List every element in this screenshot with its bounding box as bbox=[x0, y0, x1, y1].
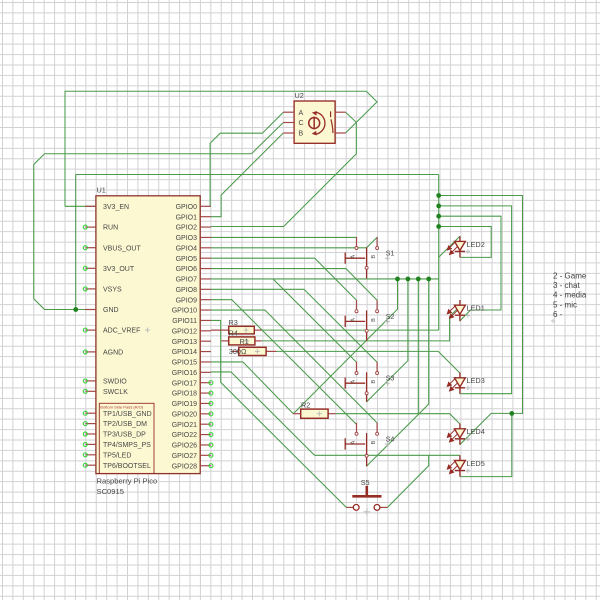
svg-text:5 - mic: 5 - mic bbox=[553, 300, 577, 309]
wire GPIO16 to anode rail bbox=[211, 372, 315, 455]
wire GPIO7 diag to S3.A bbox=[273, 279, 357, 362]
U1 pin GPIO18 bbox=[172, 391, 213, 398]
U1 pin GPIO21 bbox=[172, 422, 213, 429]
wire GPIO5 to S2.A bbox=[211, 258, 357, 300]
wire GPIO11 to S5 left bbox=[211, 320, 346, 507]
LED LED3 bbox=[447, 373, 470, 394]
note origin cross bbox=[551, 319, 555, 323]
U2 pin B (left) bbox=[283, 131, 303, 138]
U1 pin SWCLK bbox=[83, 389, 128, 396]
svg-text:B: B bbox=[371, 255, 377, 259]
pushbutton S5 left contact bbox=[346, 505, 359, 511]
switch S3 movable contact bbox=[365, 372, 368, 402]
svg-text:A: A bbox=[350, 318, 356, 322]
U1 pin TP2/USB_DM bbox=[83, 421, 147, 428]
svg-text:GPIO5: GPIO5 bbox=[176, 256, 198, 263]
pushbutton S5 cap bar bbox=[352, 495, 381, 498]
wire GND left loop bbox=[34, 154, 252, 310]
U1 pin TP6/BOOTSEL bbox=[83, 463, 151, 470]
svg-text:TP4/SMPS_PS: TP4/SMPS_PS bbox=[103, 442, 151, 449]
U1 pin GPIO6 bbox=[176, 266, 211, 273]
wire S5 right riser bbox=[388, 455, 429, 507]
svg-text:R4: R4 bbox=[229, 329, 238, 338]
svg-text:GPIO22: GPIO22 bbox=[172, 432, 197, 439]
svg-text:R1: R1 bbox=[240, 337, 249, 346]
U1 pin GPIO17 bbox=[172, 380, 213, 387]
U1 pin GPIO1 bbox=[176, 214, 211, 221]
note text key list bbox=[553, 271, 587, 319]
svg-text:GPIO4: GPIO4 bbox=[176, 245, 198, 252]
junction bus 3 bbox=[436, 214, 441, 219]
svg-text:B: B bbox=[371, 440, 377, 444]
U1 pin GPIO11 bbox=[172, 318, 211, 325]
svg-text:TP5/LED: TP5/LED bbox=[103, 452, 131, 459]
svg-text:Bottom Side Pads (R/O): Bottom Side Pads (R/O) bbox=[100, 404, 144, 409]
svg-text:GPIO16: GPIO16 bbox=[172, 370, 197, 377]
switch S2 origin cross bbox=[385, 319, 390, 324]
wire GND bus vertical bbox=[438, 175, 440, 331]
junction bus 4 bbox=[436, 224, 441, 229]
U1 bottom-side-pads sub box bbox=[99, 403, 154, 473]
wire GPIO3 to S1.A bbox=[211, 236, 357, 238]
wire GPIO15 to R2 bbox=[211, 362, 293, 414]
svg-text:GPIO8: GPIO8 bbox=[176, 287, 198, 294]
wire LED2 anode diag bbox=[439, 236, 460, 257]
svg-text:4 - media: 4 - media bbox=[553, 291, 587, 300]
wire LED4 loop bbox=[439, 196, 523, 445]
U1 pin GPIO22 bbox=[172, 432, 213, 439]
svg-text:SWDIO: SWDIO bbox=[103, 379, 127, 386]
U1 pin TP3/USB_DP bbox=[83, 432, 146, 439]
svg-text:GPIO10: GPIO10 bbox=[172, 308, 197, 315]
svg-text:LED4: LED4 bbox=[467, 427, 485, 436]
junction gpio7 a bbox=[395, 277, 400, 282]
U1 pin GPIO7 bbox=[176, 277, 211, 284]
svg-text:GPIO14: GPIO14 bbox=[172, 349, 197, 356]
U1 pin TP4/SMPS_PS bbox=[83, 442, 151, 449]
switch S3 origin cross bbox=[385, 381, 390, 386]
wire bus drop to S4 movable bbox=[367, 279, 429, 466]
U2 pin S2 (right bottom) bbox=[335, 132, 346, 134]
U1 pin 3V3_OUT bbox=[83, 266, 135, 273]
wire LED5 cathode bbox=[460, 413, 512, 476]
svg-text:LED1: LED1 bbox=[467, 304, 485, 313]
svg-text:A: A bbox=[299, 110, 304, 117]
U1 pin 3V3_EN bbox=[85, 204, 129, 211]
junction bus 1 bbox=[436, 193, 441, 198]
svg-text:GPIO3: GPIO3 bbox=[176, 235, 198, 242]
U1 pin RUN bbox=[83, 225, 118, 232]
resistor R1 body bbox=[232, 347, 277, 355]
wire GPIO10 to S4.B bbox=[211, 310, 377, 423]
wire U2.C diagonal bbox=[252, 123, 284, 154]
U1 pin GPIO8 bbox=[176, 287, 211, 294]
switch S3 pin A stub bbox=[355, 362, 358, 375]
switch S1 pin A stub bbox=[355, 237, 358, 250]
switch S3 pin B stub bbox=[376, 362, 379, 375]
U1 pin GPIO20 bbox=[172, 411, 213, 418]
switch S4 movable contact bbox=[365, 433, 368, 466]
svg-text:GPIO21: GPIO21 bbox=[172, 422, 197, 429]
svg-text:RUN: RUN bbox=[103, 225, 118, 232]
U1 pin TP1/USB_GND bbox=[83, 411, 151, 418]
U1 pin GPIO16 bbox=[172, 370, 211, 377]
U1 pin SWDIO bbox=[83, 379, 127, 386]
svg-text:A: A bbox=[350, 255, 356, 259]
wire GPIO8 to S3.B bbox=[211, 289, 377, 362]
svg-text:AGND: AGND bbox=[103, 350, 123, 357]
svg-text:VSYS: VSYS bbox=[103, 287, 122, 294]
svg-text:GPIO9: GPIO9 bbox=[176, 297, 198, 304]
svg-text:300Ω: 300Ω bbox=[229, 347, 247, 356]
switch S4 pin A stub bbox=[355, 423, 358, 436]
svg-text:GPIO17: GPIO17 bbox=[172, 380, 197, 387]
svg-text:S5: S5 bbox=[361, 478, 370, 487]
LED LED4 bbox=[447, 424, 470, 445]
junction gpio7 d bbox=[426, 277, 431, 282]
switch S1 origin cross bbox=[385, 256, 390, 261]
U1 pin GPIO0 bbox=[176, 204, 211, 211]
U2 rotation arrow bbox=[316, 112, 325, 134]
U1 pin GPIO12 bbox=[172, 328, 211, 335]
LED LED5 bbox=[447, 455, 470, 476]
svg-text:SWCLK: SWCLK bbox=[103, 389, 128, 396]
svg-text:GPIO1: GPIO1 bbox=[176, 214, 198, 221]
wire U2.B to GPIO1 bbox=[211, 133, 283, 217]
pushbutton S5 stem bbox=[365, 486, 368, 497]
junction gpio7 b bbox=[406, 277, 411, 282]
U1 pin AGND bbox=[83, 350, 123, 357]
svg-text:TP3/USB_DP: TP3/USB_DP bbox=[103, 432, 146, 439]
svg-text:GPIO19: GPIO19 bbox=[172, 401, 197, 408]
svg-text:TP1/USB_GND: TP1/USB_GND bbox=[103, 411, 152, 418]
U1 pin GPIO13 bbox=[172, 339, 211, 346]
LED LED2 bbox=[447, 236, 470, 257]
switch S2 movable contact bbox=[365, 311, 368, 341]
wire GND riser bbox=[75, 175, 77, 310]
switch S3 actuator bbox=[345, 378, 365, 389]
U1 pin GPIO5 bbox=[176, 256, 211, 263]
switch S4 pin B stub bbox=[376, 423, 379, 436]
switch S4 origin cross bbox=[385, 442, 390, 447]
svg-text:U2: U2 bbox=[295, 91, 304, 100]
svg-text:ADC_VREF: ADC_VREF bbox=[103, 328, 140, 335]
switch S2 pin B stub bbox=[376, 300, 379, 313]
switch S2 pin A stub bbox=[355, 300, 358, 313]
junction GND at U1 bbox=[73, 307, 78, 312]
U1 pin GPIO28 bbox=[172, 463, 213, 470]
resistor R3 body bbox=[211, 326, 262, 334]
U2 push switch contact bbox=[331, 111, 333, 133]
U1 pin TP5/LED bbox=[83, 452, 131, 459]
U2 pin C (left) bbox=[283, 120, 303, 127]
rotary encoder U2 body bbox=[294, 101, 335, 143]
svg-text:GPIO7: GPIO7 bbox=[176, 277, 198, 284]
wire R2 out to LED4 bbox=[336, 414, 460, 424]
wire GPIO4 to S1.B bbox=[211, 237, 377, 248]
pushbutton S5 right contact bbox=[374, 505, 387, 511]
pushbutton S5 origin cross bbox=[363, 508, 370, 515]
svg-text:R2: R2 bbox=[301, 401, 310, 410]
svg-text:LED5: LED5 bbox=[467, 459, 485, 468]
svg-text:3 - chat: 3 - chat bbox=[553, 281, 580, 290]
wire R4 out to LED1 bbox=[262, 306, 460, 341]
svg-text:TP2/USB_DM: TP2/USB_DM bbox=[103, 421, 147, 428]
switch S1 pin B stub bbox=[376, 237, 379, 250]
switch S1 actuator bbox=[345, 253, 365, 264]
wire bus drop to R2 rail bbox=[417, 279, 419, 414]
wire GPIO7 bus bbox=[211, 278, 439, 280]
svg-text:B: B bbox=[299, 131, 304, 138]
wire anode rail LED5/S4 bbox=[315, 454, 460, 456]
junction gpio7 c bbox=[416, 277, 421, 282]
wire 3V3_EN to U2 switch bbox=[65, 91, 377, 206]
wire LED1 loop bbox=[439, 216, 501, 321]
wire U2.A to GPIO0 bbox=[210, 112, 283, 206]
wire 3V3_EN pin link bbox=[65, 205, 96, 207]
svg-text:GPIO0: GPIO0 bbox=[176, 204, 198, 211]
junction led4/5 bbox=[509, 411, 514, 416]
svg-text:2 - Game: 2 - Game bbox=[553, 271, 587, 280]
U1 pin GPIO19 bbox=[172, 401, 213, 408]
U1 pin GPIO3 bbox=[176, 235, 211, 242]
U1 origin cross bbox=[145, 328, 150, 333]
U1 pin GPIO9 bbox=[176, 297, 211, 304]
switch S1 movable contact bbox=[365, 247, 368, 278]
U1 pin GPIO4 bbox=[176, 245, 211, 252]
svg-text:LED3: LED3 bbox=[467, 376, 485, 385]
svg-text:LED2: LED2 bbox=[467, 240, 485, 249]
switch S4 actuator bbox=[345, 438, 365, 449]
wire LED2 loop bbox=[439, 227, 492, 258]
svg-text:C: C bbox=[299, 120, 304, 127]
switch S2 actuator bbox=[345, 316, 365, 327]
svg-text:3V3_EN: 3V3_EN bbox=[103, 204, 129, 211]
U2 pin A (left) bbox=[283, 110, 303, 117]
svg-text:B: B bbox=[371, 318, 377, 322]
svg-text:GPIO13: GPIO13 bbox=[172, 339, 197, 346]
U1 pin GPIO27 bbox=[172, 453, 213, 460]
U1 pin GPIO2 bbox=[176, 225, 211, 232]
LED LED1 bbox=[447, 300, 470, 321]
wire bus drop to R2 bbox=[293, 279, 397, 414]
wire U2.S1 to GPIO2 bbox=[211, 112, 356, 226]
resistor R4 body bbox=[222, 337, 262, 345]
U2 shaft bar bbox=[313, 117, 315, 130]
svg-text:GPIO18: GPIO18 bbox=[172, 391, 197, 398]
svg-text:GPIO11: GPIO11 bbox=[172, 318, 197, 325]
U1 pin GND bbox=[85, 307, 118, 314]
svg-text:B: B bbox=[371, 380, 377, 384]
svg-text:A: A bbox=[350, 380, 356, 384]
U1 pin GPIO10 bbox=[172, 308, 211, 315]
svg-text:GPIO6: GPIO6 bbox=[176, 266, 198, 273]
svg-text:R3: R3 bbox=[229, 318, 238, 327]
wire R1 out to LED3 bbox=[277, 351, 460, 373]
wire bus drop to S3 movable bbox=[367, 279, 408, 402]
junction bus 2 bbox=[436, 204, 441, 209]
svg-text:U1: U1 bbox=[97, 186, 106, 195]
svg-text:TP6/BOOTSEL: TP6/BOOTSEL bbox=[103, 463, 151, 470]
svg-text:3V3_OUT: 3V3_OUT bbox=[103, 266, 135, 273]
svg-text:GPIO2: GPIO2 bbox=[176, 225, 198, 232]
svg-text:VBUS_OUT: VBUS_OUT bbox=[103, 245, 141, 252]
wire GPIO9 to S4.A bbox=[211, 300, 357, 425]
wire R3 out to bus bbox=[262, 329, 439, 331]
svg-text:GPIO27: GPIO27 bbox=[172, 453, 197, 460]
svg-text:GND: GND bbox=[103, 307, 119, 314]
svg-text:GPIO26: GPIO26 bbox=[172, 443, 197, 450]
U1 pin VBUS_OUT bbox=[83, 245, 141, 252]
svg-text:SC0915: SC0915 bbox=[97, 487, 124, 496]
wire GPIO6 to S2.B bbox=[211, 269, 377, 301]
svg-text:GPIO28: GPIO28 bbox=[172, 463, 197, 470]
U1 pin GPIO15 bbox=[172, 360, 211, 367]
resistor R2 body bbox=[293, 409, 335, 418]
U1 pin GPIO26 bbox=[172, 443, 213, 450]
U2 shaft circle bbox=[309, 118, 320, 129]
svg-text:A: A bbox=[350, 440, 356, 444]
svg-text:GPIO20: GPIO20 bbox=[172, 411, 197, 418]
wire LED3 loop bbox=[439, 206, 512, 394]
svg-text:GPIO15: GPIO15 bbox=[172, 360, 197, 367]
U2 pin S1 (right top) bbox=[335, 111, 346, 113]
U1 pin GPIO14 bbox=[172, 349, 211, 356]
svg-text:GPIO12: GPIO12 bbox=[172, 328, 197, 335]
svg-text:Raspberry Pi Pico: Raspberry Pi Pico bbox=[97, 477, 158, 486]
IC U1 Raspberry Pi Pico body bbox=[96, 196, 200, 474]
wire GND top rail bbox=[76, 174, 439, 176]
U1 pin ADC_VREF bbox=[83, 328, 140, 335]
U1 pin VSYS bbox=[83, 287, 122, 294]
svg-text:6 -: 6 - bbox=[553, 310, 563, 319]
